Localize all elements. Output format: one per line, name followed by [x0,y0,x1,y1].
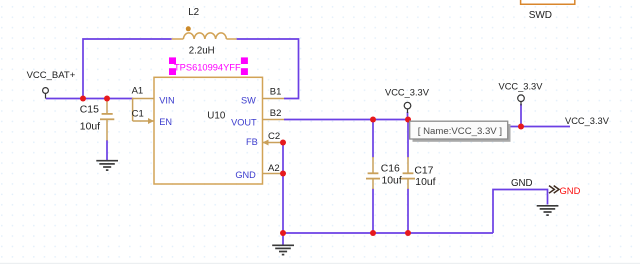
svg-text:L2: L2 [188,7,199,18]
capacitor C16 [366,157,380,189]
svg-text:C2: C2 [268,131,280,142]
svg-text:C16: C16 [381,164,400,175]
selection handle bottom-right [241,68,248,75]
svg-text:GND: GND [560,185,581,196]
svg-text:SW: SW [241,95,256,105]
inductor L2 polarity dot [186,26,191,31]
svg-text:VIN: VIN [159,95,174,105]
junction node gnd bottom [280,230,286,236]
wire VOUT net [284,119,408,121]
svg-text:U10: U10 [207,110,226,121]
junction node A2 [280,171,286,177]
ground below C15 [96,161,118,170]
svg-text:10uf: 10uf [415,177,435,188]
svg-text:FB: FB [246,137,258,147]
svg-text:C1: C1 [132,108,144,119]
svg-text:C17: C17 [414,165,433,176]
svg-text:A1: A1 [132,86,144,97]
tooltip Name:VCC_3.3V shadow [413,124,511,142]
inductor L2 [172,33,237,39]
pin A2 GND stub [263,173,284,175]
wire C17 bottom branch [407,189,409,234]
svg-text:VCC_3.3V: VCC_3.3V [385,87,430,97]
pin C1 EN stub [133,120,154,122]
pin A1 VIN stub [133,98,154,100]
power symbol VCC_3.3V over C16 [404,102,411,113]
svg-text:SWD: SWD [529,10,552,21]
svg-text:2.2uH: 2.2uH [189,45,215,56]
ground right port [537,206,559,215]
svg-text:A2: A2 [268,163,280,174]
junction node C16 bottom [370,230,376,236]
svg-text:[ Name:VCC_3.3V ]: [ Name:VCC_3.3V ] [418,126,502,137]
wire VCC power drop to VOUT net [407,112,409,120]
wire VCC_3.3V power 2 drop [520,104,522,127]
junction node C17 bottom [405,230,411,236]
connector SWD box [521,0,575,4]
tooltip Name:VCC_3.3V box [410,121,508,139]
wire C16 top branch [372,120,374,158]
svg-text:10uf: 10uf [80,121,100,132]
wire inductor to SW [237,39,299,99]
op-amp U10 body [154,77,263,184]
ground below chip [272,245,294,254]
pin C2 FB arrow [263,140,269,146]
selection handle top-right [241,57,248,64]
junction node VIN loop [80,96,86,102]
svg-text:EN: EN [159,117,172,127]
svg-text:GND: GND [511,178,533,189]
wire bottom GND net [283,232,493,234]
wire FB to GND net vertical [282,143,284,234]
pin B2 VOUT stub [263,119,285,121]
power symbol VCC_BAT+ [43,88,49,99]
capacitor C15 [100,99,114,141]
svg-text:GND: GND [235,170,256,180]
svg-text:VOUT: VOUT [231,117,257,127]
junction node C16 top [370,117,376,123]
svg-text:VCC_3.3V: VCC_3.3V [499,82,544,92]
wire C16 bottom branch [372,189,374,234]
capacitor C17 [401,157,415,189]
wire VCC_BAT+ to VIN [46,98,133,100]
wire EN jog [132,98,134,121]
selection handle top-left [169,57,176,64]
wire chip ground lead [282,233,284,245]
svg-text:VCC_3.3V: VCC_3.3V [565,116,610,126]
selection handle bottom-left [169,68,176,75]
svg-text:TPS610994YFF: TPS610994YFF [174,62,241,72]
svg-text:C15: C15 [80,105,99,116]
power symbol VCC_3.3V right [518,95,525,106]
junction node C15 [104,96,110,102]
svg-text:B2: B2 [270,108,282,119]
port chevron GND [549,186,559,194]
pin C2 FB stub [263,142,284,144]
wire inductor loop left vertical [83,39,172,99]
pin B1 SW stub [263,98,285,100]
svg-text:VCC_BAT+: VCC_BAT+ [27,70,76,81]
svg-text:B1: B1 [270,87,282,98]
svg-text:10uf: 10uf [382,175,402,186]
wire VCC_3.3V output label net [455,126,570,128]
wire C15 bottom to ground [106,140,108,160]
junction node VCC right [518,124,524,130]
pin C1 EN arrow [148,118,154,124]
wire GND net riser to port [493,190,548,234]
wire C17 top branch [407,120,409,158]
junction node FB [280,140,286,146]
junction node VCC/C17 top [405,117,411,123]
